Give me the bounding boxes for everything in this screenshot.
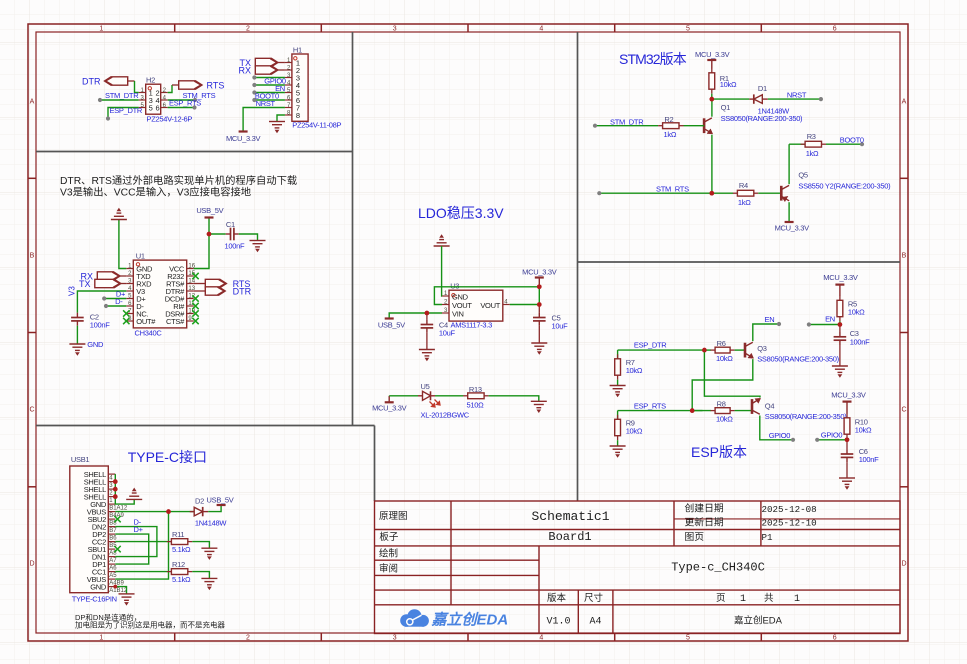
wire U3 VOUT loop to MCU_3.3V: [434, 287, 539, 305]
ground (C2): [69, 344, 85, 355]
ground (R7): [610, 386, 626, 397]
svg-text:1kΩ: 1kΩ: [806, 149, 819, 158]
svg-text:5.1kΩ: 5.1kΩ: [172, 545, 191, 554]
U1 pin 4/13: [126, 290, 133, 292]
no-connect marks U1 pins 15,12,11,10,9: [192, 273, 198, 279]
wire R1 to junction: [711, 94, 713, 99]
svg-text:加电阻是为了识别这是用电器，而不是充电器: 加电阻是为了识别这是用电器，而不是充电器: [75, 620, 225, 630]
svg-text:Q4: Q4: [765, 402, 775, 411]
svg-text:D2: D2: [195, 497, 204, 506]
svg-text:PZ254V-11-08P: PZ254V-11-08P: [292, 121, 341, 130]
wire CC1 to R12: [115, 571, 167, 573]
U1 pin 6/11: [126, 305, 133, 307]
port TX (U1): [95, 279, 121, 287]
diode D1 1N4148W: [749, 94, 768, 103]
svg-text:R6: R6: [717, 339, 726, 348]
USB1 pin A7 (DN1): [108, 556, 115, 558]
svg-text:DTR、RTS通过外部电路实现单片机的程序自动下载: DTR、RTS通过外部电路实现单片机的程序自动下载: [60, 174, 297, 187]
capacitor C1 100nF: [226, 228, 239, 241]
svg-text:10kΩ: 10kΩ: [626, 366, 643, 375]
capacitor C2 100nF: [71, 313, 84, 326]
svg-text:1kΩ: 1kΩ: [738, 198, 751, 207]
svg-text:1: 1: [794, 594, 800, 605]
svg-text:图页: 图页: [685, 531, 705, 543]
wire H2 pin2 to RTS: [168, 85, 172, 93]
wire H1 pin8 to ground: [277, 115, 285, 122]
svg-text:NRST: NRST: [787, 91, 807, 100]
wire R3 to BOOT0: [826, 143, 862, 145]
power flag MCU_3.3V (LDO): [535, 278, 544, 287]
wire R9 to ground: [617, 440, 619, 446]
ground (C6): [839, 478, 855, 489]
svg-text:D: D: [901, 561, 906, 568]
svg-text:嘉立创EDA: 嘉立创EDA: [431, 611, 509, 629]
resistor R6 10kΩ: [704, 349, 711, 351]
ground (H1 pin8): [269, 122, 285, 133]
svg-text:B: B: [30, 253, 35, 260]
connector H1 PZ254V-11-08P: [292, 54, 308, 121]
svg-text:100nF: 100nF: [225, 242, 245, 251]
svg-text:3: 3: [393, 26, 397, 33]
svg-text:5: 5: [149, 104, 153, 113]
ground (C5): [531, 343, 547, 354]
H1 pin 1 stub: [285, 62, 292, 64]
wire Q5 emitter to MCU_3.3V: [788, 202, 790, 222]
svg-text:D+: D+: [134, 525, 144, 534]
svg-text:5: 5: [686, 635, 690, 642]
svg-text:LDO稳压3.3V: LDO稳压3.3V: [418, 205, 504, 221]
wire U1 VCC to USB_5V: [194, 234, 209, 269]
wire GND row to ground: [115, 587, 126, 594]
USB1 pin 3 (SHELL): [108, 481, 115, 483]
wire U1 GND to ground (top): [119, 220, 126, 269]
transistor Q5 SS8550: [781, 185, 789, 201]
svg-text:A4B9: A4B9: [109, 581, 124, 587]
svg-text:A: A: [30, 99, 35, 106]
svg-text:XL-2012BGWC: XL-2012BGWC: [421, 411, 470, 420]
svg-text:1kΩ: 1kΩ: [664, 130, 677, 139]
ground (USB1 GND): [119, 594, 135, 605]
svg-text:100nF: 100nF: [90, 321, 110, 330]
wire LED to R13: [435, 395, 463, 397]
port TX: [255, 58, 278, 66]
wire Q4 collector down to GPIO0: [760, 416, 793, 440]
svg-text:A: A: [902, 99, 907, 106]
wire C6 to ground: [846, 462, 848, 478]
svg-text:5: 5: [686, 26, 690, 33]
svg-text:VOUT: VOUT: [480, 301, 500, 310]
svg-text:RX: RX: [238, 65, 251, 75]
svg-text:OUT#: OUT#: [136, 317, 156, 326]
svg-text:USB_5V: USB_5V: [196, 206, 223, 215]
svg-text:H2: H2: [146, 76, 155, 85]
resistor R1 10kΩ: [711, 68, 713, 73]
ground (USB1 shell, flipped): [126, 488, 142, 499]
svg-text:USB1: USB1: [71, 455, 90, 464]
wire R11 to ground: [192, 542, 209, 549]
svg-text:2025-12-08: 2025-12-08: [762, 504, 817, 515]
svg-text:NRST: NRST: [256, 99, 276, 108]
wire C2 to ground: [76, 326, 78, 344]
svg-text:10kΩ: 10kΩ: [716, 354, 733, 363]
svg-text:10uF: 10uF: [439, 329, 456, 338]
svg-text:1: 1: [740, 594, 746, 605]
svg-text:H1: H1: [293, 46, 302, 55]
wire Q1 collector: [711, 99, 713, 117]
svg-text:尺寸: 尺寸: [584, 592, 604, 604]
svg-text:5.1kΩ: 5.1kΩ: [172, 575, 191, 584]
svg-text:SS8050(RANGE:200-350): SS8050(RANGE:200-350): [721, 114, 803, 123]
wire R12 to ground: [192, 572, 209, 579]
port DTR (U1 DTR#): [194, 290, 206, 292]
wire C1 to ground: [239, 234, 258, 241]
power flag MCU_3.3V (R1): [707, 60, 716, 69]
wire CC2 to R11: [115, 541, 167, 543]
svg-text:STM_RTS: STM_RTS: [656, 184, 689, 193]
svg-text:版本: 版本: [547, 592, 567, 604]
U1 pin 3/14: [126, 283, 133, 285]
svg-text:V3是输出、VCC是输入，V3应接电容接地: V3是输出、VCC是输入，V3应接电容接地: [60, 186, 251, 199]
svg-text:GND: GND: [87, 340, 104, 349]
svg-text:更新日期: 更新日期: [685, 515, 724, 528]
svg-text:ESP_RTS: ESP_RTS: [634, 401, 666, 410]
svg-text:10kΩ: 10kΩ: [626, 426, 643, 435]
USB1 pin B8 (SBU2): [108, 518, 115, 520]
svg-text:SS8050(RANGE:200-350): SS8050(RANGE:200-350): [757, 355, 839, 364]
svg-text:USB_5V: USB_5V: [378, 321, 405, 330]
wire USB_5V to U3 VIN: [389, 313, 442, 319]
USB1 pin B6 (DP2): [108, 533, 115, 535]
svg-text:C: C: [29, 407, 34, 414]
svg-text:Board1: Board1: [548, 530, 591, 544]
svg-text:B: B: [902, 253, 907, 260]
ground (C3): [832, 366, 848, 377]
svg-text:510Ω: 510Ω: [467, 401, 485, 410]
title block table: [375, 501, 901, 634]
svg-text:AMS1117-3.3: AMS1117-3.3: [451, 321, 493, 330]
svg-text:ESP版本: ESP版本: [691, 444, 747, 460]
wire DTR to H2 pin1: [128, 80, 135, 82]
svg-text:Q5: Q5: [798, 171, 808, 180]
H1 pin 7 stub: [285, 107, 292, 109]
svg-text:BOOT0: BOOT0: [840, 136, 864, 145]
USB1 pin 1 (SHELL): [108, 496, 115, 498]
wire junction to C1: [209, 233, 226, 235]
H1 pin 3 stub: [285, 77, 292, 79]
wire VBUS row to D2 and down: [115, 511, 194, 513]
wire H2 pin6 ESP_RTS: [168, 107, 195, 109]
ground (U1 GND, flipped): [111, 209, 127, 220]
svg-text:MCU_3.3V: MCU_3.3V: [522, 268, 557, 277]
power flag USB_5V (TYPE-C): [217, 504, 226, 506]
svg-text:10kΩ: 10kΩ: [720, 80, 737, 89]
svg-text:MCU_3.3V: MCU_3.3V: [226, 134, 261, 143]
svg-text:A6: A6: [109, 566, 117, 572]
connector USB1 TYPE-C16PIN: [70, 466, 109, 593]
USB1 pin B5 (CC2): [108, 541, 115, 543]
wire D2 to USB_5V: [208, 505, 221, 512]
capacitor C3 100nF: [839, 325, 841, 333]
svg-text:STM32版本: STM32版本: [619, 51, 687, 67]
connector H2 PZ254V-12-6P: [146, 84, 161, 114]
svg-text:Q3: Q3: [757, 344, 767, 353]
resistor R4 1kΩ: [733, 192, 738, 194]
svg-text:V3: V3: [68, 286, 77, 296]
svg-text:U1: U1: [136, 252, 145, 261]
svg-text:P1: P1: [762, 532, 774, 543]
no-connect SBU2: [114, 516, 120, 522]
junction: [207, 232, 212, 237]
svg-text:DTR: DTR: [82, 77, 101, 87]
U3 pin 3 (VIN): [442, 312, 449, 314]
H2 pin1 marker: [148, 87, 151, 90]
port RTS: [179, 81, 202, 89]
svg-text:A4: A4: [589, 617, 601, 628]
svg-text:10uF: 10uF: [552, 322, 569, 331]
svg-text:100nF: 100nF: [850, 338, 870, 347]
H2 pin stubs row 3: [139, 107, 146, 109]
svg-text:TYPE-C接口: TYPE-C接口: [128, 449, 207, 465]
wire U1 V3 to C2: [77, 291, 126, 313]
svg-text:嘉立创EDA: 嘉立创EDA: [734, 615, 783, 627]
svg-text:Q1: Q1: [721, 103, 731, 112]
svg-text:D: D: [29, 561, 34, 568]
transistor Q4 SS8050 (mirrored): [752, 398, 761, 414]
svg-text:VIN: VIN: [452, 309, 464, 318]
svg-text:STM_DTR: STM_DTR: [105, 91, 139, 100]
svg-text:3: 3: [393, 635, 397, 642]
IC U1 CH340C: [133, 260, 186, 328]
svg-text:8: 8: [296, 111, 300, 120]
svg-text:B7: B7: [109, 528, 117, 534]
USB1 pin B1A12 (GND): [108, 503, 115, 505]
wire C3 to ground: [839, 345, 841, 366]
IC U3 AMS1117-3.3: [449, 290, 503, 321]
svg-text:10kΩ: 10kΩ: [855, 425, 872, 434]
wire Q1 emitter down to STM_RTS row: [711, 135, 713, 194]
power flag MCU_3.3V (H1): [239, 130, 248, 132]
resistor R11 5.1kΩ: [167, 541, 172, 543]
wire R7 to ground: [617, 380, 619, 386]
H2 pin stubs row 1: [139, 92, 146, 94]
resistor R8 10kΩ: [692, 410, 711, 412]
wire STM_DTR to H2 pin3: [100, 99, 139, 101]
U1 pin 2/15: [126, 275, 133, 277]
svg-text:C: C: [901, 407, 906, 414]
U3 pin 4 (VOUT): [503, 304, 510, 306]
svg-text:6: 6: [833, 26, 837, 33]
svg-text:审阅: 审阅: [379, 563, 398, 575]
svg-text:D1: D1: [758, 84, 767, 93]
svg-text:B6: B6: [109, 536, 117, 542]
svg-text:2: 2: [246, 635, 250, 642]
resistor R9 10kΩ: [617, 411, 619, 420]
svg-text:SS8050(RANGE:200-350): SS8050(RANGE:200-350): [765, 412, 847, 421]
no-connect marks U1 pins 7,8: [123, 310, 129, 316]
section divider lines: [36, 32, 900, 501]
wire R10 to junction: [846, 439, 848, 440]
wire R13 to ground: [489, 396, 539, 402]
wire C5 to ground: [538, 326, 540, 343]
title block text: [379, 502, 817, 628]
svg-text:R12: R12: [172, 560, 185, 569]
svg-text:TYPE-C16PIN: TYPE-C16PIN: [72, 594, 117, 603]
svg-text:GPIO0: GPIO0: [821, 431, 843, 440]
svg-text:D-: D-: [115, 297, 123, 306]
svg-text:6: 6: [833, 635, 837, 642]
transistor Q3 SS8050: [745, 342, 754, 358]
ground (C4): [419, 350, 435, 361]
svg-text:4: 4: [539, 26, 543, 33]
svg-text:R2: R2: [664, 115, 673, 124]
svg-text:R13: R13: [469, 385, 482, 394]
junctions on shell bus: [113, 479, 118, 484]
svg-text:A7: A7: [109, 558, 117, 564]
svg-text:MCU_3.3V: MCU_3.3V: [775, 224, 810, 233]
wire D1 to NRST: [768, 98, 821, 100]
LED U5 XL-2012BGWC: [418, 391, 435, 400]
svg-text:1: 1: [99, 26, 103, 33]
JLC EDA logo: [400, 609, 508, 628]
U1 pin 5/12: [126, 298, 133, 300]
power flag MCU_3.3V (Q5): [785, 221, 794, 223]
ground (R13): [531, 401, 547, 412]
resistor R10 10kΩ: [846, 413, 848, 418]
wire H2 pin4 STM_RTS: [168, 99, 195, 101]
H1 pin 8 stub: [285, 114, 292, 116]
USB1 pin A6 (DP1): [108, 563, 115, 565]
wire junction to D1: [712, 98, 750, 100]
svg-text:STM_DTR: STM_DTR: [610, 117, 644, 126]
wire Q3 emitter cross to ESP_RTS junction: [692, 359, 753, 411]
capacitor C6 100nF: [846, 440, 848, 450]
port DTR: [105, 77, 128, 85]
ground (C1): [250, 241, 266, 252]
svg-text:6: 6: [156, 104, 160, 113]
U3 pin 1 (GND): [442, 295, 449, 297]
svg-text:R4: R4: [739, 181, 748, 190]
svg-text:CH340C: CH340C: [135, 329, 163, 338]
svg-text:ESP_RTS: ESP_RTS: [169, 98, 201, 107]
diode D2 1N4148W: [190, 507, 209, 516]
H1 pin1 marker: [294, 57, 297, 60]
wire R2 to Q1 base: [684, 125, 705, 127]
ground (LDO top, flipped): [434, 235, 450, 246]
port RX: [255, 66, 278, 74]
USB1 pin B4A9 (VBUS): [108, 511, 115, 513]
ground (R11): [201, 548, 217, 559]
USB1 pin 2 (SHELL): [108, 488, 115, 490]
power flag USB_5V (LDO): [385, 317, 394, 319]
svg-text:MCU_3.3V: MCU_3.3V: [372, 404, 407, 413]
H1 pin 2 stub: [285, 69, 292, 71]
svg-text:1N4148W: 1N4148W: [195, 519, 227, 528]
svg-text:TX: TX: [79, 279, 91, 289]
svg-text:Type-c_CH340C: Type-c_CH340C: [671, 561, 765, 575]
svg-text:10kΩ: 10kΩ: [716, 415, 733, 424]
wire R4 to Q5 base: [758, 192, 781, 194]
wire Q5 collector up to R3: [788, 144, 790, 184]
wire ESP_DTR junction cross to Q4 emitter: [704, 350, 760, 397]
wire R5 to junction: [839, 321, 841, 324]
svg-text:USB_5V: USB_5V: [207, 496, 234, 505]
svg-text:B1A12: B1A12: [109, 506, 128, 512]
USB1 pin 4 (SHELL): [108, 473, 115, 475]
svg-text:EN: EN: [825, 315, 835, 324]
svg-text:2025-12-10: 2025-12-10: [762, 518, 817, 529]
resistor R12 5.1kΩ: [167, 571, 172, 573]
svg-text:共: 共: [764, 593, 774, 604]
ground (R9): [610, 446, 626, 457]
svg-text:4: 4: [539, 635, 543, 642]
svg-text:CTS#: CTS#: [166, 317, 185, 326]
svg-text:C1: C1: [226, 220, 235, 229]
U1 pin 8/9: [126, 320, 133, 322]
port RX (U1): [97, 272, 120, 280]
port RTS (U1 RTS#): [194, 283, 206, 285]
svg-text:SS8550 Y2(RANGE:200-350): SS8550 Y2(RANGE:200-350): [798, 182, 891, 191]
H1 pin 4 stub: [285, 84, 292, 86]
wire ESP_DTR to H2 pin5: [108, 108, 139, 119]
wire MCU_3.3V to LED: [389, 395, 418, 397]
svg-text:MCU_3.3V: MCU_3.3V: [695, 50, 730, 59]
svg-text:R8: R8: [717, 400, 726, 409]
USB1 pin A5 (CC1): [108, 571, 115, 573]
svg-text:RTS: RTS: [207, 81, 225, 91]
svg-text:100nF: 100nF: [859, 455, 879, 464]
svg-text:R3: R3: [807, 132, 816, 141]
capacitor C4 10uF: [426, 313, 428, 320]
svg-text:Schematic1: Schematic1: [531, 509, 609, 524]
svg-text:GPIO0: GPIO0: [769, 431, 791, 440]
svg-text:1: 1: [99, 635, 103, 642]
resistor R7 10kΩ: [617, 350, 619, 359]
wire H1 pin3: [254, 77, 285, 79]
wire SHELL/GND bus: [115, 474, 134, 504]
svg-text:PZ254V-12-6P: PZ254V-12-6P: [147, 115, 193, 124]
svg-text:2: 2: [246, 26, 250, 33]
svg-text:创建日期: 创建日期: [685, 502, 724, 515]
resistor R13 510Ω: [463, 395, 468, 397]
svg-text:GND: GND: [90, 583, 107, 592]
U1 pin 7/10: [126, 313, 133, 315]
wire R8 to Q4 base: [735, 410, 752, 412]
wire ground to U3 GND: [441, 246, 443, 296]
H1 pin 5 stub: [285, 92, 292, 94]
wire Q3 collector to EN: [753, 324, 779, 341]
resistor R5 10kΩ: [839, 296, 841, 301]
USB1 pin A4B9 (VBUS): [108, 578, 115, 580]
svg-text:板子: 板子: [379, 531, 399, 543]
no-connect SBU1: [114, 546, 120, 552]
svg-text:A5: A5: [109, 573, 117, 579]
USB1 pin A1B12 (GND): [108, 586, 115, 588]
svg-text:EN: EN: [765, 315, 775, 324]
svg-text:绘制: 绘制: [379, 548, 398, 560]
resistor R3 1kΩ: [789, 143, 805, 145]
svg-text:U3: U3: [450, 282, 459, 291]
power flag USB_5V (U1): [205, 216, 214, 218]
transistor Q1 SS8050: [704, 118, 713, 134]
power flag MCU_3.3V (R10): [843, 402, 852, 414]
USB1 pin A8 (SBU1): [108, 548, 115, 550]
svg-text:V1.0: V1.0: [546, 617, 570, 628]
resistor R2 1kΩ: [658, 125, 663, 127]
wire R6 to Q3 base: [735, 349, 745, 351]
svg-text:DTR: DTR: [233, 287, 252, 297]
H2 pin stubs row 2: [139, 99, 146, 101]
svg-text:MCU_3.3V: MCU_3.3V: [823, 273, 858, 282]
